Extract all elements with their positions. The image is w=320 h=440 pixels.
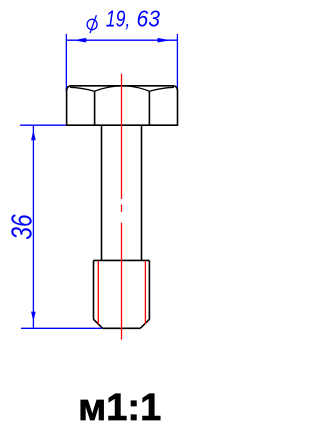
arrow right	[158, 38, 171, 43]
extension line left	[65, 34, 67, 92]
thread section right edge	[148, 260, 150, 319]
svg-text:19,: 19,	[106, 5, 131, 31]
chamfer arc middle face	[95, 86, 150, 91]
tip chamfer left	[94, 319, 103, 328]
bolt head outline	[67, 86, 178, 125]
arrow left	[73, 38, 86, 43]
dimension line 36	[32, 126, 34, 328]
extension line 36 bottom	[21, 327, 102, 329]
center line	[121, 74, 123, 340]
thread minor line right	[144, 261, 146, 324]
tip bottom edge	[103, 327, 141, 329]
svg-text:36: 36	[6, 214, 38, 239]
thread section shoulder	[94, 259, 150, 261]
chamfer arc right face	[149, 87, 174, 91]
shaft right edge	[141, 126, 143, 261]
shaft left edge	[101, 126, 103, 261]
svg-text:м1:1: м1:1	[78, 387, 161, 429]
dimension line (diameter)	[66, 39, 177, 41]
hex face edge left	[94, 91, 96, 125]
dimension text ⌀19,63	[86, 15, 97, 33]
arrow 36 bottom	[31, 312, 36, 322]
extension line 36 top	[20, 124, 66, 126]
thread section left edge	[93, 260, 95, 319]
thread minor line left	[97, 261, 99, 324]
hex face edge right	[148, 91, 150, 125]
chamfer arc left face	[70, 87, 95, 91]
arrow 36 top	[31, 130, 36, 140]
extension line right	[176, 34, 178, 92]
svg-text:63: 63	[137, 5, 161, 31]
tip chamfer right	[140, 319, 149, 328]
